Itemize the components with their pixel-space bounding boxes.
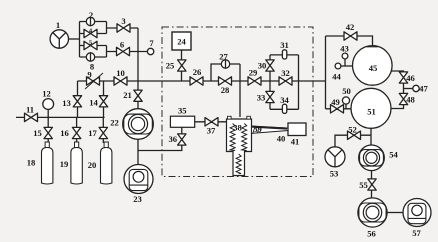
valve 13 — [73, 96, 81, 107]
heated capillary nozzle 39 40 — [252, 126, 289, 133]
cold trap box 35 — [170, 116, 194, 127]
svg-text:23: 23 — [133, 194, 142, 204]
svg-text:19: 19 — [60, 159, 69, 169]
valve 6 — [117, 47, 130, 55]
wire column B to bottle 19 — [76, 117, 78, 143]
wire column C to bottle 20 — [102, 117, 104, 143]
wire gauge 43 stem — [344, 59, 346, 66]
svg-text:39: 39 — [253, 124, 262, 134]
svg-text:41: 41 — [291, 136, 300, 146]
valve 10 — [114, 77, 127, 85]
valve 14 — [99, 96, 107, 107]
gauge 44 — [335, 63, 341, 69]
svg-text:7: 7 — [149, 38, 154, 48]
tank 45 — [353, 46, 393, 86]
wire branch check-2 — [80, 21, 107, 23]
svg-text:22: 22 — [110, 117, 119, 127]
wire purifier-24 stem — [181, 50, 183, 81]
gas bottle 18 — [42, 142, 53, 184]
orifice 31 — [282, 50, 286, 59]
svg-text:18: 18 — [27, 157, 36, 167]
svg-text:21: 21 — [123, 90, 132, 100]
valve 37 — [205, 118, 218, 126]
check valve 27 — [221, 60, 229, 68]
svg-text:3: 3 — [121, 16, 125, 26]
valve 28 — [219, 77, 232, 85]
wire down leg to vessel 38 — [239, 64, 241, 117]
svg-text:30: 30 — [258, 60, 267, 70]
wire branch vertical 30-33 — [269, 55, 271, 109]
valve 32 — [279, 77, 292, 85]
svg-text:15: 15 — [33, 128, 42, 138]
svg-text:35: 35 — [178, 106, 187, 116]
svg-text:26: 26 — [193, 67, 202, 77]
valve 9 with slash — [85, 73, 103, 89]
wire right leg of branch network — [298, 55, 300, 109]
valve 48 — [399, 93, 407, 104]
tank 51 — [351, 88, 391, 128]
wire pump54 to pump56 — [371, 170, 373, 198]
svg-text:6: 6 — [120, 39, 125, 49]
gauge 43 — [342, 53, 348, 59]
svg-text:49: 49 — [331, 97, 340, 107]
valve 3 — [117, 24, 130, 32]
wire trap 35 drain stem — [181, 127, 183, 135]
svg-text:52: 52 — [348, 124, 357, 134]
svg-text:46: 46 — [406, 73, 415, 83]
svg-text:28: 28 — [221, 85, 230, 95]
wire bottom branch orifice 34 — [270, 108, 299, 110]
svg-text:51: 51 — [367, 106, 376, 116]
valve 11 — [25, 113, 38, 121]
svg-text:16: 16 — [60, 128, 69, 138]
svg-text:11: 11 — [26, 104, 34, 114]
valve 49 — [331, 105, 344, 113]
wire valve-6 line to vent 7 — [107, 51, 148, 53]
pump 57 — [403, 199, 431, 227]
svg-text:27: 27 — [219, 51, 228, 61]
wire valve-42 line to tank 45 — [326, 36, 373, 46]
gas wheel 1 — [50, 30, 68, 48]
wire valve-49 line to tank 51 — [326, 108, 352, 110]
svg-text:38: 38 — [233, 122, 242, 132]
svg-text:1: 1 — [56, 20, 60, 30]
svg-text:36: 36 — [169, 134, 178, 144]
valve 42 — [344, 32, 357, 40]
wire branch check-8 — [80, 56, 107, 58]
valve 25 — [178, 60, 186, 71]
wire valve-3 line — [107, 27, 139, 29]
svg-text:56: 56 — [367, 228, 376, 238]
wire bottom loop right bracket — [106, 46, 108, 58]
svg-text:10: 10 — [116, 68, 125, 78]
svg-text:45: 45 — [369, 63, 378, 73]
wire top branch orifice 31 — [270, 54, 299, 56]
valve 26 — [190, 77, 203, 85]
gas bottle 19 — [71, 142, 82, 184]
wire gauge 47 stub — [404, 88, 413, 90]
valve 46 — [399, 72, 407, 83]
svg-text:54: 54 — [389, 149, 398, 159]
wire left manifold — [79, 22, 81, 58]
wire column A to bottle 18 — [47, 117, 49, 143]
svg-text:53: 53 — [330, 168, 339, 178]
svg-text:20: 20 — [88, 160, 97, 170]
svg-text:34: 34 — [280, 95, 289, 105]
wire trap 35 to vessel 38 — [195, 121, 227, 123]
valve 33 — [266, 91, 274, 102]
wire column valve-13 — [77, 81, 79, 117]
svg-text:25: 25 — [166, 60, 175, 70]
valve 5 — [84, 41, 97, 49]
gauge 50 — [342, 97, 349, 104]
pump 54 — [359, 145, 385, 171]
wire branch valve-5 — [80, 45, 107, 47]
svg-text:50: 50 — [342, 86, 351, 96]
svg-text:32: 32 — [281, 68, 290, 78]
check valve 8 — [86, 53, 94, 61]
svg-text:40: 40 — [277, 133, 286, 143]
svg-text:44: 44 — [332, 71, 341, 81]
svg-text:42: 42 — [346, 22, 355, 32]
svg-text:47: 47 — [419, 83, 428, 93]
purifier box 24 — [172, 32, 191, 50]
wire gauge 50 stem — [345, 104, 347, 109]
wire pump56 to pump57 — [387, 212, 403, 214]
wire right section riser — [325, 36, 327, 109]
pump 22 — [123, 109, 154, 140]
pump 23 — [124, 165, 153, 194]
svg-text:29: 29 — [249, 67, 258, 77]
svg-text:24: 24 — [177, 36, 186, 46]
pump 56 — [358, 198, 387, 227]
wire branch valve 52 to wheel 53 — [335, 135, 371, 147]
svg-text:14: 14 — [89, 97, 98, 107]
gas bottle 20 — [101, 142, 112, 184]
valve 15 — [44, 127, 52, 138]
valve 29 — [248, 77, 261, 85]
svg-text:31: 31 — [280, 40, 289, 50]
wire gauge 44 stub — [341, 65, 353, 67]
orifice 34 — [282, 104, 286, 113]
svg-text:12: 12 — [42, 88, 51, 98]
valve 36 — [178, 134, 186, 145]
valve 4 — [84, 29, 97, 37]
wire tank 51 bottom to pump 54 — [370, 128, 372, 145]
wire tank45-tank51 right side with 46 48 — [391, 71, 404, 109]
valve 16 — [72, 127, 80, 138]
valve 21 — [134, 90, 142, 101]
svg-text:55: 55 — [359, 180, 368, 190]
wire column valve-14 — [103, 81, 105, 117]
check valve 2 — [86, 17, 94, 25]
wire bottle manifold line — [16, 116, 105, 118]
gauge 12 — [43, 99, 54, 110]
svg-text:48: 48 — [406, 94, 415, 104]
wire bypass loop around valve 28 — [211, 64, 240, 81]
wire top loop right bracket — [106, 22, 108, 34]
wire branch valve-4 — [80, 33, 107, 35]
valve 52 — [348, 131, 361, 139]
wire gauge-12 stem — [47, 109, 49, 117]
gauge 47 — [413, 85, 419, 91]
wire drain tee to trap 35 — [138, 134, 182, 151]
svg-text:37: 37 — [207, 125, 216, 135]
valve 30 — [266, 60, 274, 71]
svg-text:13: 13 — [62, 98, 71, 108]
svg-text:57: 57 — [412, 228, 421, 238]
svg-text:9: 9 — [87, 69, 91, 79]
dashed enclosure boundary — [162, 27, 313, 177]
svg-text:17: 17 — [88, 128, 97, 138]
cryostat vessel 38 — [227, 116, 252, 175]
vent port 7 — [147, 48, 153, 54]
valve 55 — [368, 179, 376, 190]
valve 17 — [99, 127, 107, 138]
wire compressor-1 outlet — [68, 38, 79, 40]
svg-text:33: 33 — [257, 92, 266, 102]
wire main line 9-10-26-32 — [78, 80, 326, 82]
detector box 41 — [288, 123, 306, 136]
svg-text:43: 43 — [340, 43, 349, 53]
wire vertical manifold to compressors — [137, 28, 139, 165]
gas wheel 53 — [325, 147, 345, 167]
svg-text:2: 2 — [89, 10, 93, 20]
